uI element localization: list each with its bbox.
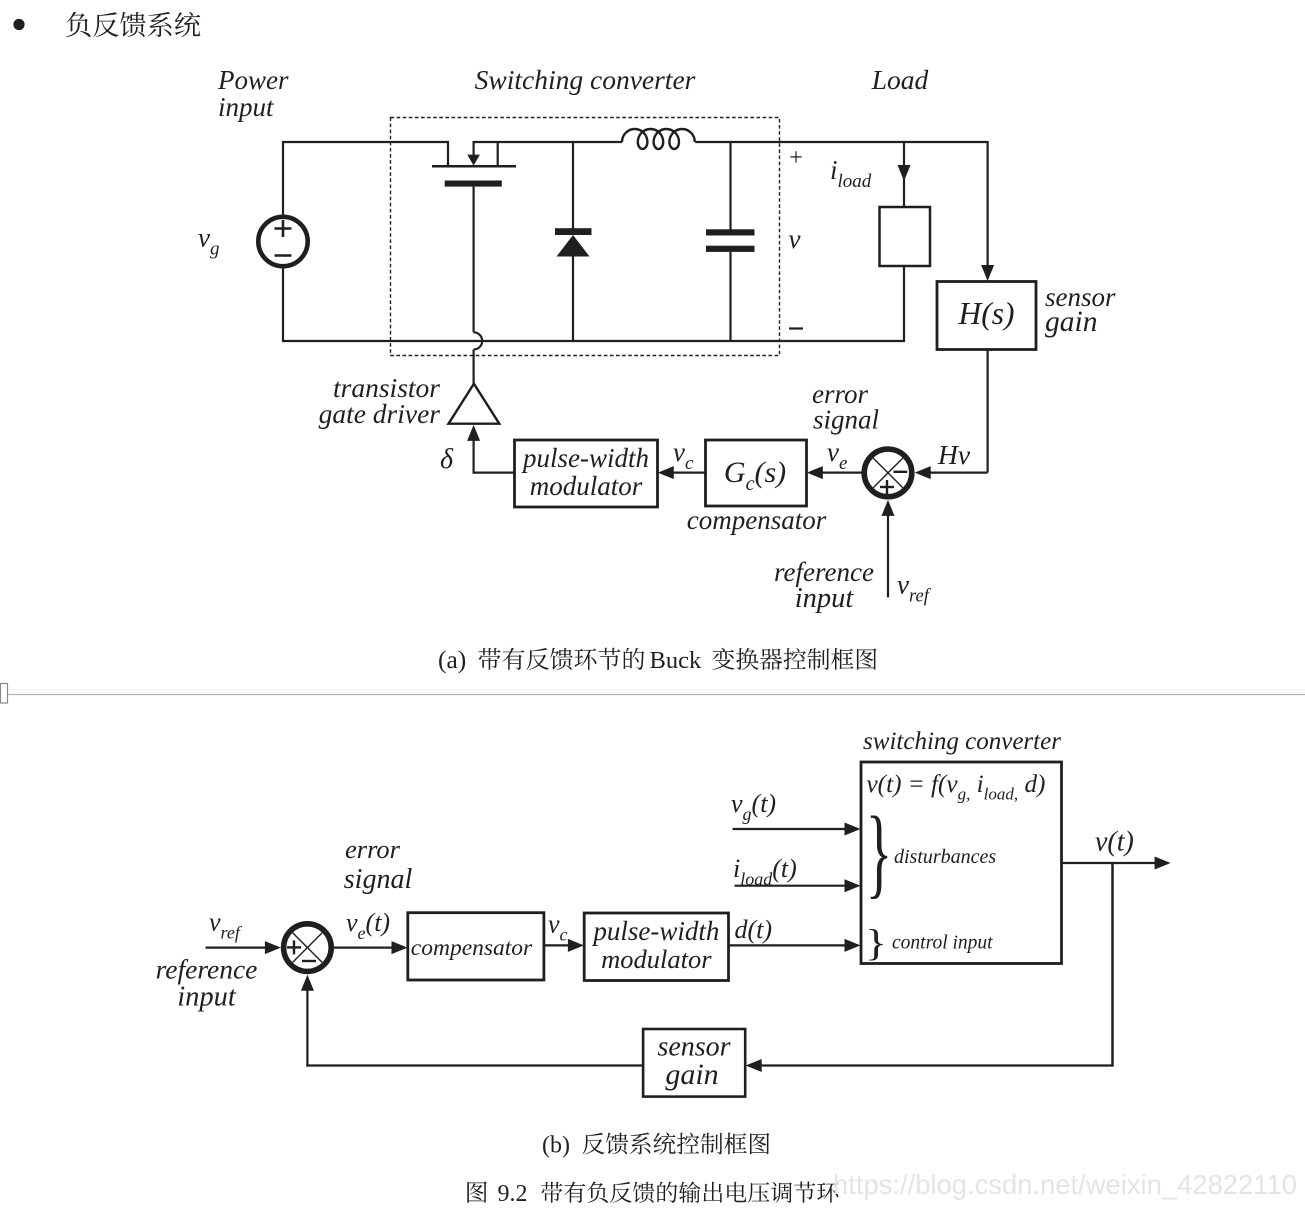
svg-text:compensator: compensator [411,935,533,961]
diode D1 [555,141,592,342]
wire load branch with arrow [903,141,905,207]
load resistor box [880,207,931,266]
svg-text:v(t): v(t) [1095,827,1134,858]
transistor gate driver triangle [449,384,500,424]
svg-text:H(s): H(s) [958,296,1015,331]
capacitor C [706,141,755,342]
wire summing to compensator (b) [334,946,392,948]
svg-text:signal: signal [344,864,413,895]
svg-text:reference: reference [156,954,258,985]
wire Gc to pulse-width modulator [661,472,706,474]
compensator block Gc(s) [706,440,807,506]
svg-text:vref: vref [897,570,932,607]
svg-text:signal: signal [813,405,879,435]
svg-text:vg(t): vg(t) [731,789,776,824]
caption (a) [438,645,877,674]
svg-text:https://blog.csdn.net/weixin_4: https://blog.csdn.net/weixin_42822110 [833,1169,1297,1200]
pulse-width modulator block (a) [515,440,658,507]
disturbances brace [866,796,892,908]
compensator block (b) [408,913,544,980]
svg-text:disturbances: disturbances [894,846,996,868]
svg-text:control input: control input [892,933,993,954]
svg-text:+: + [789,145,803,171]
svg-text:compensator: compensator [687,505,827,535]
svg-text:d(t): d(t) [735,915,773,944]
feedback tap wire down [1111,863,1114,1067]
svg-text:input: input [795,583,855,614]
heading text 负反馈系统 [66,12,200,37]
wire gate lead with crossover hop [474,187,483,385]
inductor L [622,129,695,149]
svg-text:gain: gain [1045,306,1097,338]
feedback wire from sensor gain to summing junction [306,1064,643,1066]
wire left branch of source vg [282,141,284,216]
svg-text:Load: Load [871,64,929,95]
svg-text:(b): (b) [542,1133,570,1159]
wire compensator to PWM (b) [544,944,569,946]
svg-text:9.2: 9.2 [498,1181,528,1207]
resize handle at left edge [1,684,8,704]
sensor gain block H(s) [937,282,1036,350]
svg-text:vref: vref [209,908,243,943]
wire top left from source to MOSFET [282,141,449,143]
svg-text:Power: Power [217,65,289,95]
control input brace [865,923,887,965]
svg-text:error: error [345,834,401,864]
svg-text:}: } [866,796,892,908]
svg-text:}: } [865,923,887,965]
svg-text:v: v [789,224,801,254]
svg-text:gate driver: gate driver [319,398,441,429]
svg-text:ve: ve [827,437,847,474]
bullet marker [13,19,24,30]
section divider line [0,689,1305,691]
svg-text:pulse-width: pulse-width [521,443,649,473]
svg-text:Buck: Buck [650,647,702,674]
wire right branch down to H(s) [986,141,988,277]
wire from H(s) to summing junction [986,350,988,473]
reference input arrow into summing junction (a) [887,504,889,598]
caption (b) [542,1133,770,1159]
svg-text:iload: iload [830,155,872,192]
svg-text:v(t) = f(vg, iload, d): v(t) = f(vg, iload, d) [867,771,1046,804]
transistor Q1 MOSFET [432,141,516,187]
wire PWM to gate driver [474,472,515,474]
wire top from inductor to right corner [695,141,987,143]
wire bottom rail [282,340,905,342]
wire PWM to converter (b) [729,944,847,946]
node label minus [789,327,803,329]
svg-text:iload(t): iload(t) [733,854,797,889]
svg-text:modulator: modulator [601,944,712,974]
svg-text:modulator: modulator [530,471,643,501]
summing junction (a) [864,449,912,497]
reference input arrow (b) [206,946,266,948]
svg-text:ve(t): ve(t) [346,908,390,943]
svg-text:Switching converter: Switching converter [475,64,696,95]
feedback wire to sensor gain [761,1064,1113,1066]
svg-text:vc: vc [673,437,694,474]
switching converter block (b) [861,762,1062,964]
svg-text:input: input [218,92,275,122]
wire below load box [903,266,905,342]
pulse-width modulator block (b) [584,913,728,981]
wire top from MOSFET to inductor [474,141,622,143]
wire summing junction to compensator [810,472,862,474]
svg-text:pulse-width: pulse-width [591,916,719,946]
sensor gain block (b) [643,1029,745,1097]
svg-text:Hv: Hv [937,439,971,470]
caption 图 9.2 [467,1181,838,1207]
wire below source to bottom rail [282,266,284,342]
svg-text:switching converter: switching converter [863,728,1061,755]
svg-text:(a): (a) [438,645,466,674]
svg-text:vc: vc [548,910,568,945]
svg-text:vg: vg [198,223,219,260]
svg-text:gain: gain [665,1058,718,1091]
svg-text:input: input [177,982,237,1013]
summing junction (b) [284,924,332,972]
output wire v(t) [1062,862,1156,864]
svg-text:δ: δ [440,444,454,475]
switching converter dashed boundary [391,118,780,356]
voltage source V_g [258,217,307,266]
svg-text:Gc(s): Gc(s) [724,456,786,495]
